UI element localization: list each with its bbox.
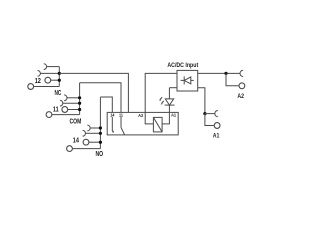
node 12 junction a xyxy=(58,72,61,75)
wire outer circle to bus xyxy=(34,86,60,88)
relay contact 14 end xyxy=(112,131,114,133)
wire outer circle14 to bus xyxy=(72,148,100,150)
plug contact arc 14b xyxy=(83,130,86,136)
screw terminal circle 12 xyxy=(45,77,51,83)
node 14 junction a xyxy=(99,126,102,129)
plug contact arc 11b xyxy=(60,100,63,106)
wire A1 junction to arc xyxy=(205,113,215,115)
wire circle12 to bus xyxy=(51,79,60,81)
wire net14 to relay pin 14 xyxy=(100,97,112,112)
wire A2 net vertical to AC/DC box xyxy=(145,73,177,112)
svg-text:11: 11 xyxy=(119,113,124,118)
wire A2 to screw terminal xyxy=(226,73,239,85)
plug contact arc 12a xyxy=(44,64,47,70)
wire arc11b to bus xyxy=(63,102,80,104)
screw terminal circle 12 outer xyxy=(28,84,34,90)
rectifier diode cathode bar xyxy=(183,76,185,84)
node 11 junction b xyxy=(78,102,81,105)
node 11 junction a xyxy=(78,96,81,99)
wire arc14a to bus xyxy=(90,127,100,129)
LED D1 wire top xyxy=(168,88,170,99)
rectifier diode line xyxy=(181,79,194,81)
relay coil diagonal xyxy=(153,117,162,131)
node 12 junction b xyxy=(58,79,61,82)
wire arc14b to bus xyxy=(86,132,101,134)
wire arc12b to bus xyxy=(40,72,59,74)
relay contact 11 internal lead xyxy=(120,117,122,128)
node 14 junction c xyxy=(99,141,102,144)
relay contact 14 internal lead xyxy=(111,117,113,132)
relay contact arm 11-12 xyxy=(121,127,125,134)
screw terminal circle 14 xyxy=(83,139,89,145)
node A2 junction xyxy=(224,72,227,75)
bus 12 vertical xyxy=(58,67,60,87)
wire AC/DC to A2 terminal xyxy=(198,72,240,74)
svg-text:12: 12 xyxy=(35,78,41,85)
svg-text:A1: A1 xyxy=(171,113,176,118)
svg-text:A2: A2 xyxy=(138,113,143,119)
svg-text:AC/DC Input: AC/DC Input xyxy=(167,62,199,69)
wire circle14 to bus xyxy=(89,141,101,143)
relay coil internal wire from A2 xyxy=(145,112,153,124)
wire arc12a to bus xyxy=(47,66,60,68)
svg-text:NC: NC xyxy=(55,90,62,97)
LED D1 triangle xyxy=(165,99,173,105)
wire LED to AC/DC box xyxy=(169,87,177,89)
plug contact arc 12b xyxy=(38,71,41,77)
LED emission arrow 2 xyxy=(162,101,164,104)
node 14 junction b xyxy=(99,132,102,135)
plug contact arc A2 xyxy=(240,70,243,76)
LED D1 cathode bar xyxy=(165,104,175,106)
svg-text:11: 11 xyxy=(53,106,59,113)
relay K1 outline xyxy=(107,112,178,134)
svg-text:NO: NO xyxy=(96,151,104,158)
wire A1 to screw terminal xyxy=(205,114,214,126)
screw terminal circle 11 xyxy=(62,107,68,113)
plug contact arc A1 xyxy=(215,111,218,117)
plug contact arc 14a xyxy=(87,125,90,131)
wire AC/DC to A1 terminal xyxy=(198,88,205,114)
plug contact arc 11a xyxy=(64,95,67,101)
wire net12 to relay pin 12 xyxy=(59,73,128,112)
wire net11 to relay pin 11 xyxy=(80,83,121,113)
relay coil K1 xyxy=(153,117,162,131)
screw terminal circle A1 xyxy=(214,123,220,129)
svg-text:A1: A1 xyxy=(213,133,220,140)
relay pin label 14 xyxy=(110,113,115,118)
svg-text:A2: A2 xyxy=(237,93,244,100)
relay coil internal wire to A1 xyxy=(162,112,169,124)
node A1 junction xyxy=(203,112,206,115)
LED D1 wire bottom xyxy=(168,105,170,112)
bus 11 vertical xyxy=(79,83,81,115)
bus 14 vertical xyxy=(99,97,101,149)
svg-text:14: 14 xyxy=(73,138,79,145)
screw terminal circle A2 xyxy=(239,83,245,89)
node 11 junction c xyxy=(78,108,81,111)
relay pin label 11 xyxy=(119,113,124,118)
screw terminal circle 14 outer xyxy=(67,146,73,152)
wire arc11a to bus xyxy=(67,97,80,99)
svg-text:14: 14 xyxy=(110,113,115,118)
AC/DC input rectifier box xyxy=(177,70,198,91)
rectifier diode triangle xyxy=(184,77,191,84)
screw terminal circle 11 outer xyxy=(46,112,52,118)
LED emission arrow 1 xyxy=(160,97,162,100)
wire circle11 to bus xyxy=(68,109,80,111)
wire outer circle11 to bus xyxy=(52,114,80,116)
svg-text:COM: COM xyxy=(70,119,82,126)
